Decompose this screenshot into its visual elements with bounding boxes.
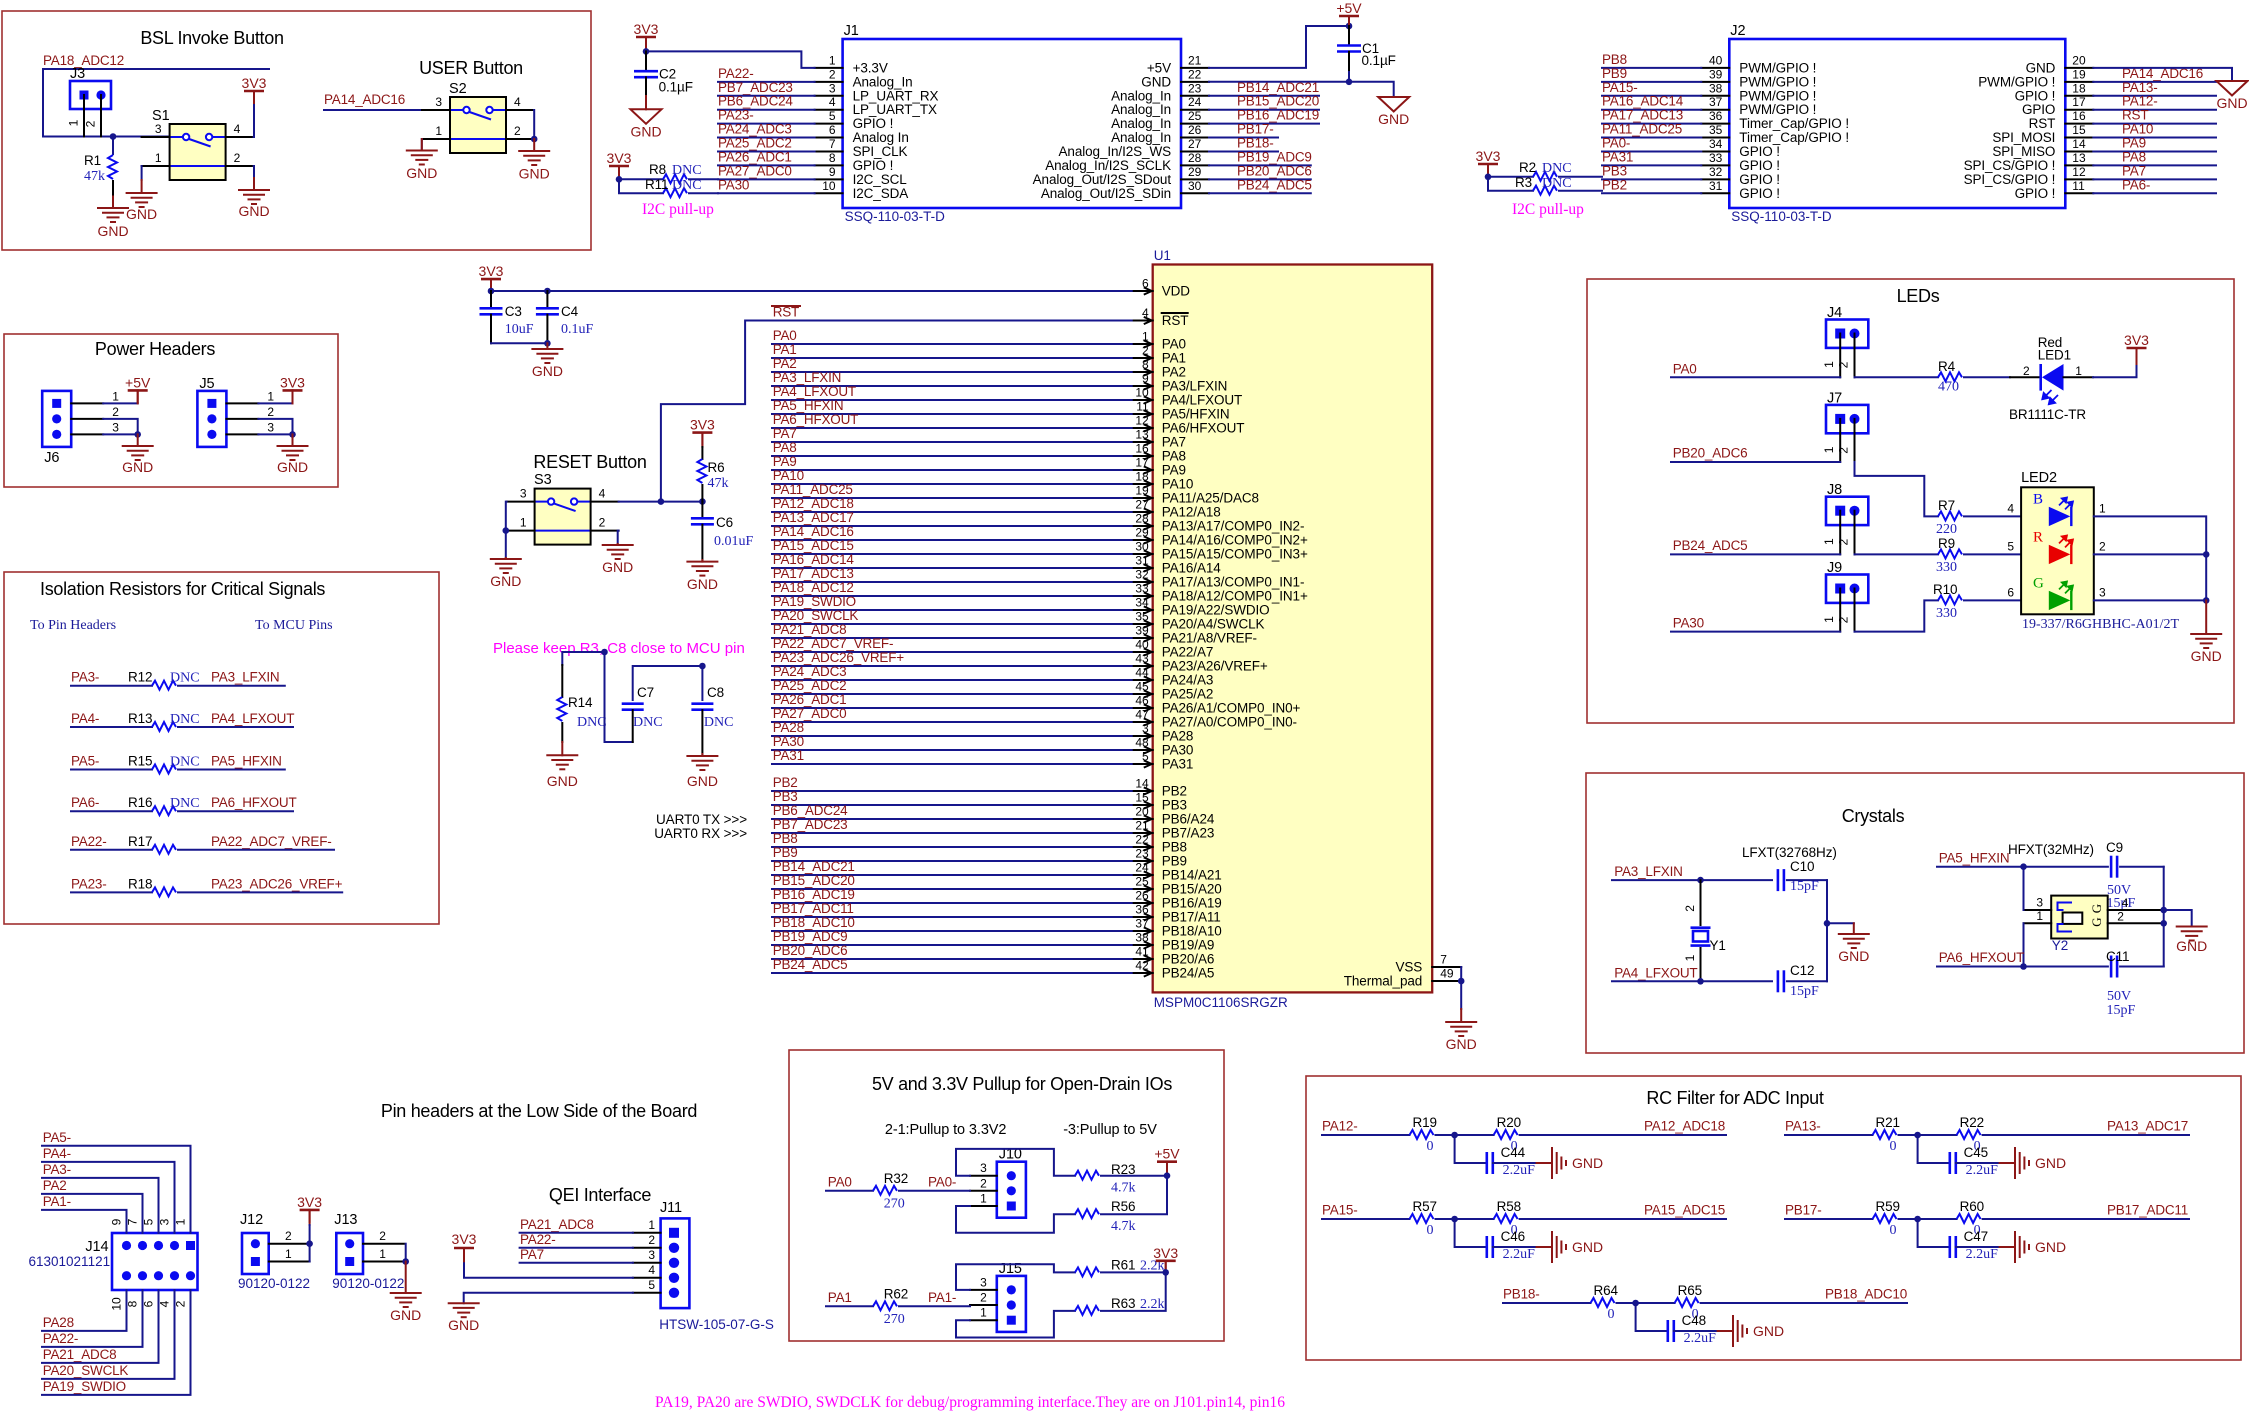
ground at C45 [2000, 1162, 2015, 1164]
wire [178, 891, 342, 893]
svg-text:PB9: PB9 [773, 845, 798, 860]
resistor R64 [1503, 1302, 1591, 1304]
svg-text:R58: R58 [1497, 1199, 1521, 1214]
svg-text:4: 4 [648, 1263, 655, 1277]
svg-text:PB18/A10: PB18/A10 [1162, 924, 1222, 939]
svg-text:PB8: PB8 [1162, 840, 1187, 855]
svg-text:+5V: +5V [1336, 0, 1362, 16]
svg-text:270: 270 [884, 1197, 905, 1212]
wire S3 pin3 to pin1 [505, 502, 508, 531]
svg-text:GND: GND [1838, 948, 1869, 964]
svg-text:PWM/GPIO !: PWM/GPIO ! [1739, 88, 1816, 103]
wire 3V3 to J11 pin4 [464, 1263, 633, 1278]
svg-text:PA19, PA20 are SWDIO, SWDCLK f: PA19, PA20 are SWDIO, SWDCLK for debug/p… [655, 1394, 1285, 1411]
svg-text:2: 2 [514, 124, 521, 138]
svg-text:GND: GND [1378, 111, 1409, 127]
resistor R4 [1938, 372, 1962, 381]
svg-text:15pF: 15pF [1790, 984, 1819, 999]
svg-text:+3.3V: +3.3V [853, 60, 888, 75]
svg-text:PA10: PA10 [1162, 477, 1194, 492]
svg-text:PA2: PA2 [1162, 365, 1186, 380]
svg-text:0: 0 [1427, 1139, 1434, 1154]
svg-text:26: 26 [1188, 123, 1202, 137]
svg-text:PA2: PA2 [773, 356, 797, 371]
junction +5V [1164, 1172, 1171, 1179]
svg-text:0.01uF: 0.01uF [714, 534, 754, 549]
resistor R3 (DNC) [1488, 177, 1533, 191]
svg-text:0.1µF: 0.1µF [659, 80, 693, 95]
svg-text:PB18_ADC10: PB18_ADC10 [773, 915, 855, 930]
resistor R56 [1075, 1209, 1099, 1218]
svg-text:PB19_ADC9: PB19_ADC9 [773, 929, 848, 944]
svg-text:GND: GND [2216, 95, 2247, 111]
svg-text:C11: C11 [2106, 949, 2129, 964]
J1 right pin leads and names [1033, 53, 1209, 200]
svg-text:PA14_ADC16: PA14_ADC16 [773, 524, 854, 539]
svg-text:GND: GND [2176, 938, 2207, 954]
svg-text:PA22/A7: PA22/A7 [1162, 645, 1214, 660]
svg-text:1: 1 [1142, 330, 1149, 344]
svg-text:GND: GND [448, 1317, 479, 1333]
wire PA14_ADC16 [324, 109, 422, 111]
wire [520, 1247, 633, 1249]
svg-text:R13: R13 [128, 711, 152, 726]
svg-text:2: 2 [829, 67, 836, 81]
svg-text:PA13_ADC17: PA13_ADC17 [773, 510, 854, 525]
svg-text:PB18-: PB18- [1237, 135, 1274, 150]
junction S3 pin1 [503, 527, 510, 534]
junction Y1 top [1697, 877, 1704, 884]
svg-text:5: 5 [648, 1278, 655, 1292]
svg-text:Y2: Y2 [2052, 938, 2069, 953]
svg-text:Analog_In: Analog_In [853, 74, 913, 89]
svg-text:2: 2 [112, 405, 119, 419]
svg-text:PA11_ADC25: PA11_ADC25 [773, 482, 853, 497]
svg-text:2: 2 [1837, 616, 1851, 623]
svg-text:37: 37 [1709, 95, 1723, 109]
svg-text:29: 29 [1188, 165, 1202, 179]
svg-text:4: 4 [2122, 896, 2129, 910]
wire [772, 888, 1132, 890]
wire [718, 150, 815, 152]
svg-text:I2C pull-up: I2C pull-up [1512, 201, 1584, 218]
svg-text:1: 1 [2075, 364, 2082, 378]
wire [178, 769, 285, 771]
wire R32 to J10 pin2 [899, 1190, 970, 1192]
section box: 5V and 3.3V Pullup for Open-Drain IOs [789, 1050, 1224, 1341]
wire [2093, 95, 2216, 97]
junction crystal gnd [1824, 920, 1831, 927]
svg-text:40: 40 [1709, 53, 1723, 67]
svg-text:34: 34 [1135, 596, 1149, 610]
svg-text:1: 1 [1822, 538, 1836, 545]
capacitor C3 [490, 291, 492, 308]
wire [42, 1210, 127, 1233]
svg-text:PA24_ADC3: PA24_ADC3 [773, 664, 847, 679]
svg-text:R65: R65 [1678, 1283, 1702, 1298]
svg-text:DNC: DNC [170, 796, 200, 811]
wire LED2 pin1 [2094, 516, 2206, 554]
svg-text:PA22_ADC7_VREF-: PA22_ADC7_VREF- [773, 636, 894, 651]
svg-text:VSS: VSS [1395, 960, 1422, 975]
svg-text:8: 8 [126, 1300, 140, 1307]
svg-text:35: 35 [1135, 610, 1149, 624]
wire RST net [661, 321, 1132, 502]
svg-text:GND: GND [687, 576, 718, 592]
svg-text:18: 18 [2072, 81, 2086, 95]
ground at Y1 caps [1827, 922, 1854, 924]
svg-text:R61: R61 [1111, 1257, 1135, 1272]
wire [1602, 109, 1701, 111]
svg-text:5: 5 [829, 109, 836, 123]
wire C9-C11 right vertical [2163, 867, 2165, 967]
svg-text:8: 8 [829, 151, 836, 165]
ground below R14 [561, 742, 563, 755]
svg-text:27: 27 [1135, 498, 1149, 512]
svg-text:41: 41 [1135, 945, 1149, 959]
svg-text:GPIO !: GPIO ! [2015, 186, 2056, 201]
wire PA5_HFXIN row [1937, 866, 2108, 868]
svg-text:PA12-: PA12- [1322, 1119, 1358, 1134]
svg-text:GND: GND [277, 459, 308, 475]
svg-text:PB20_ADC6: PB20_ADC6 [1673, 446, 1748, 461]
svg-text:15pF: 15pF [2107, 1003, 2136, 1018]
junction J5 pin3 [289, 431, 296, 438]
svg-text:2-1:Pullup to 3.3V2: 2-1:Pullup to 3.3V2 [885, 1122, 1006, 1138]
svg-text:1: 1 [1822, 446, 1836, 453]
ground at S2 pin2 [533, 139, 535, 151]
capacitor C48 [1636, 1303, 1668, 1331]
wire [772, 790, 1132, 792]
wire [772, 735, 1132, 737]
svg-text:6: 6 [142, 1300, 156, 1307]
svg-text:12: 12 [2072, 165, 2086, 179]
svg-text:2: 2 [174, 1300, 188, 1307]
wire [772, 371, 1132, 373]
wire [178, 849, 334, 851]
svg-text:DNC: DNC [633, 715, 663, 730]
svg-text:2: 2 [267, 405, 274, 419]
ground at C44 [1537, 1162, 1552, 1164]
svg-text:C7: C7 [637, 685, 654, 700]
svg-text:PB2: PB2 [1162, 784, 1187, 799]
wire [2093, 164, 2216, 166]
svg-text:47: 47 [1135, 708, 1149, 722]
svg-text:R57: R57 [1413, 1199, 1437, 1214]
wire PA4_LFXOUT row [1612, 980, 1772, 982]
resistor R62 [873, 1301, 897, 1310]
svg-text:PA16/A14: PA16/A14 [1162, 561, 1222, 576]
svg-text:PA7: PA7 [773, 426, 797, 441]
wire VDD [491, 290, 1132, 292]
wire 3V3 to J1 pin1 [646, 51, 815, 68]
svg-text:23: 23 [1135, 847, 1149, 861]
svg-text:2.2uF: 2.2uF [1966, 1247, 1999, 1262]
svg-text:PA22-: PA22- [71, 834, 107, 849]
crystal Y2 body [2051, 896, 2108, 939]
svg-text:PA19/A22/SWDIO: PA19/A22/SWDIO [1162, 603, 1270, 618]
junction PA22 row [601, 649, 608, 656]
svg-text:10: 10 [822, 179, 836, 193]
wire [1602, 123, 1701, 125]
svg-text:PA9: PA9 [2122, 135, 2146, 150]
svg-text:R60: R60 [1960, 1199, 1984, 1214]
svg-text:PA27_ADC0: PA27_ADC0 [773, 706, 847, 721]
svg-text:PA15-: PA15- [1322, 1203, 1358, 1218]
svg-text:1: 1 [174, 1218, 188, 1225]
svg-text:3: 3 [980, 1275, 987, 1289]
svg-text:GPIO !: GPIO ! [853, 116, 894, 131]
wire GND to J11 pin5 [464, 1293, 633, 1303]
wire [772, 651, 1132, 653]
svg-text:GPIO: GPIO [2022, 102, 2055, 117]
svg-text:4: 4 [158, 1300, 172, 1307]
wire PA1 to R62 [826, 1305, 873, 1307]
wire PA6_HFXOUT row [1937, 966, 2108, 968]
junction PA5/Y2 [2020, 863, 2027, 870]
svg-text:PA28: PA28 [1162, 729, 1194, 744]
svg-text:PA3-: PA3- [43, 1162, 71, 1177]
wire [718, 95, 815, 97]
Y2 pin 4 [2108, 909, 2164, 911]
svg-text:PA3-: PA3- [71, 670, 99, 685]
wire R7 to LED2 pin4 [1964, 515, 2021, 517]
svg-text:PB18-: PB18- [1503, 1287, 1540, 1302]
wire J10 pin3 loop [956, 1149, 1075, 1176]
svg-text:3: 3 [112, 420, 119, 434]
svg-text:21: 21 [1135, 819, 1149, 833]
capacitor C7 (DNC) [633, 666, 703, 700]
svg-text:UART0 TX >>>: UART0 TX >>> [656, 812, 747, 827]
resistor R15 (DNC) [71, 769, 152, 771]
svg-text:50V: 50V [2107, 989, 2131, 1004]
svg-text:19-337/R6GHBHC-A01/2T: 19-337/R6GHBHC-A01/2T [2022, 617, 2180, 632]
junction C3/C4 gnd [544, 340, 551, 347]
resistor R58 [1494, 1214, 1518, 1223]
ground below U1 [1460, 1009, 1462, 1022]
svg-text:PA11/A25/DAC8: PA11/A25/DAC8 [1162, 491, 1259, 506]
svg-text:1: 1 [2099, 502, 2106, 516]
svg-text:1: 1 [67, 119, 81, 126]
LED2 green element [2049, 591, 2071, 610]
wire [772, 902, 1132, 904]
svg-text:HFXT(32MHz): HFXT(32MHz) [2008, 842, 2094, 857]
resistor R8 (DNC) [619, 178, 663, 180]
svg-text:PA15_ADC15: PA15_ADC15 [1644, 1203, 1725, 1218]
wire [772, 567, 1132, 569]
svg-text:PB24_ADC5: PB24_ADC5 [1673, 538, 1748, 553]
svg-text:4: 4 [514, 95, 521, 109]
svg-text:PA23-: PA23- [71, 876, 107, 891]
svg-text:PA5_HFXIN: PA5_HFXIN [773, 398, 844, 413]
wire [772, 832, 1132, 834]
svg-text:2: 2 [599, 516, 606, 530]
svg-text:S3: S3 [534, 472, 552, 488]
svg-text:R17: R17 [128, 834, 152, 849]
svg-text:PA27/A0/COMP0_IN0-: PA27/A0/COMP0_IN0- [1162, 715, 1297, 730]
svg-text:I2C_SDA: I2C_SDA [853, 186, 909, 201]
svg-text:2.2uF: 2.2uF [1503, 1163, 1536, 1178]
wire [718, 109, 815, 111]
svg-text:14: 14 [1135, 777, 1149, 791]
junction C3 [488, 288, 495, 295]
svg-text:2.2uF: 2.2uF [1684, 1331, 1717, 1346]
svg-text:PA25/A2: PA25/A2 [1162, 687, 1214, 702]
svg-text:3: 3 [267, 420, 274, 434]
svg-text:PA25_ADC2: PA25_ADC2 [773, 678, 847, 693]
svg-text:PA9: PA9 [773, 454, 797, 469]
svg-text:PA22-: PA22- [43, 1331, 79, 1346]
svg-text:PA4-: PA4- [71, 711, 99, 726]
svg-text:RST: RST [2122, 108, 2148, 123]
svg-text:R56: R56 [1111, 1199, 1135, 1214]
svg-text:33: 33 [1135, 582, 1149, 596]
svg-text:C10: C10 [1790, 859, 1814, 874]
svg-text:PA20_SWCLK: PA20_SWCLK [43, 1363, 129, 1378]
wire [772, 343, 1132, 345]
svg-text:RESET Button: RESET Button [533, 452, 646, 472]
resistor R1 [112, 137, 114, 155]
svg-text:PA0-: PA0- [928, 1174, 956, 1189]
section box: Crystals [1586, 773, 2244, 1053]
wire R56 to +5V node [1101, 1176, 1167, 1215]
svg-text:Please keep R3, C8 close to MC: Please keep R3, C8 close to MCU pin [493, 640, 745, 657]
svg-text:SSQ-110-03-T-D: SSQ-110-03-T-D [845, 209, 946, 224]
3V3 power at U1 VDD [481, 278, 501, 281]
svg-text:32: 32 [1135, 568, 1149, 582]
svg-text:4: 4 [234, 122, 241, 136]
svg-text:To Pin Headers: To Pin Headers [30, 618, 116, 633]
svg-text:R32: R32 [884, 1171, 908, 1186]
LED2 red element [2049, 545, 2071, 564]
svg-text:PA23_ADC26_VREF+: PA23_ADC26_VREF+ [773, 650, 905, 665]
svg-text:R4: R4 [1938, 359, 1956, 374]
svg-text:PB15_ADC20: PB15_ADC20 [773, 873, 855, 888]
wire [772, 972, 1132, 974]
svg-text:11: 11 [1136, 400, 1149, 414]
junction S2 pin2 [531, 136, 538, 143]
svg-text:3: 3 [648, 1248, 655, 1262]
wire J2 pin20 to GND [2093, 68, 2232, 81]
svg-text:2: 2 [285, 1229, 292, 1243]
wire PB24_ADC5 to J8 [1671, 553, 1840, 555]
Y2 pin 3 [2024, 909, 2052, 911]
svg-text:PA20/A4/SWCLK: PA20/A4/SWCLK [1162, 617, 1265, 632]
svg-text:20: 20 [2072, 53, 2086, 67]
svg-text:3: 3 [1142, 722, 1149, 736]
ground below C2 (triangle) [645, 96, 647, 109]
svg-text:9: 9 [110, 1218, 124, 1225]
svg-text:36: 36 [1135, 903, 1149, 917]
wire PB20_ADC6 to J7 [1671, 461, 1840, 463]
ground at S3 pin2 [617, 531, 620, 544]
svg-text:Analog_In/I2S_SCLK: Analog_In/I2S_SCLK [1045, 158, 1171, 173]
wire [772, 511, 1132, 513]
svg-text:32: 32 [1709, 165, 1723, 179]
svg-text:22: 22 [1135, 833, 1149, 847]
svg-text:PA6_HFXOUT: PA6_HFXOUT [1939, 950, 2025, 965]
wire [772, 665, 1132, 667]
+5V power at J1 pin21 [1339, 15, 1359, 18]
svg-text:PA23_ADC26_VREF+: PA23_ADC26_VREF+ [211, 876, 343, 891]
wire PA30 to J9 [1671, 631, 1840, 633]
svg-text:Thermal_pad: Thermal_pad [1344, 974, 1422, 989]
svg-text:PA0: PA0 [1162, 337, 1186, 352]
LED2 blue element [2049, 507, 2071, 526]
svg-text:24: 24 [1135, 861, 1149, 875]
svg-text:Power Headers: Power Headers [95, 339, 215, 359]
Y2 pin 1 [2024, 922, 2052, 924]
wire [772, 609, 1132, 611]
wire [772, 637, 1132, 639]
svg-text:R20: R20 [1497, 1115, 1521, 1130]
resistor R14 (DNC) [561, 665, 563, 697]
svg-text:PA6-: PA6- [2122, 177, 2150, 192]
wire R62 to J15 pin2 [899, 1305, 970, 1307]
svg-text:4: 4 [829, 95, 836, 109]
wire [520, 1232, 633, 1234]
capacitor C6 [701, 502, 703, 518]
svg-text:19: 19 [2072, 67, 2086, 81]
svg-text:0: 0 [1890, 1139, 1897, 1154]
svg-text:PA6_HFXOUT: PA6_HFXOUT [211, 795, 297, 810]
svg-text:1: 1 [980, 1192, 987, 1206]
svg-text:49: 49 [1440, 967, 1454, 981]
wire [772, 357, 1132, 359]
svg-text:3: 3 [435, 95, 442, 109]
svg-text:2.2uF: 2.2uF [1503, 1247, 1536, 1262]
svg-text:PA3_LFXIN: PA3_LFXIN [211, 670, 279, 685]
svg-text:PA17_ADC13: PA17_ADC13 [1602, 108, 1683, 123]
wire [772, 693, 1132, 695]
svg-text:PA30: PA30 [718, 177, 749, 192]
svg-text:J14: J14 [85, 1239, 108, 1255]
svg-text:R14: R14 [568, 695, 593, 710]
3V3 at S1 pin4 [253, 103, 255, 137]
svg-text:PA31: PA31 [1162, 757, 1194, 772]
3V3 power at LED1 [2127, 347, 2147, 350]
ground below R1 [112, 197, 114, 209]
ground at Y2 [2164, 910, 2192, 927]
svg-text:220: 220 [1936, 522, 1957, 537]
wire [772, 958, 1132, 960]
svg-text:4.7k: 4.7k [1111, 1180, 1136, 1195]
wire [1602, 150, 1701, 152]
wire [772, 707, 1132, 709]
wire [2093, 123, 2216, 125]
ground below C3/C4 [546, 343, 548, 349]
svg-text:C44: C44 [1501, 1145, 1526, 1160]
svg-text:R9: R9 [1938, 536, 1955, 551]
wire [772, 595, 1132, 597]
svg-text:330: 330 [1936, 560, 1957, 575]
svg-text:PB14/A21: PB14/A21 [1162, 868, 1222, 883]
resistor R6 [701, 447, 703, 459]
wire [42, 1194, 143, 1233]
connector J6 [42, 391, 71, 447]
svg-text:GND: GND [1572, 1155, 1603, 1171]
3V3 power (pullup) [1156, 1260, 1176, 1263]
svg-text:2: 2 [234, 151, 241, 165]
power +5V at J6 pin1 [103, 402, 138, 404]
svg-text:LED2: LED2 [2021, 470, 2057, 486]
ground at J13 [405, 1262, 407, 1294]
svg-text:PA22-: PA22- [718, 66, 754, 81]
svg-text:7: 7 [126, 1218, 140, 1225]
svg-text:Analog_In: Analog_In [1111, 88, 1171, 103]
svg-text:R10: R10 [1933, 582, 1957, 597]
wire R23 to +5V [1101, 1175, 1167, 1177]
